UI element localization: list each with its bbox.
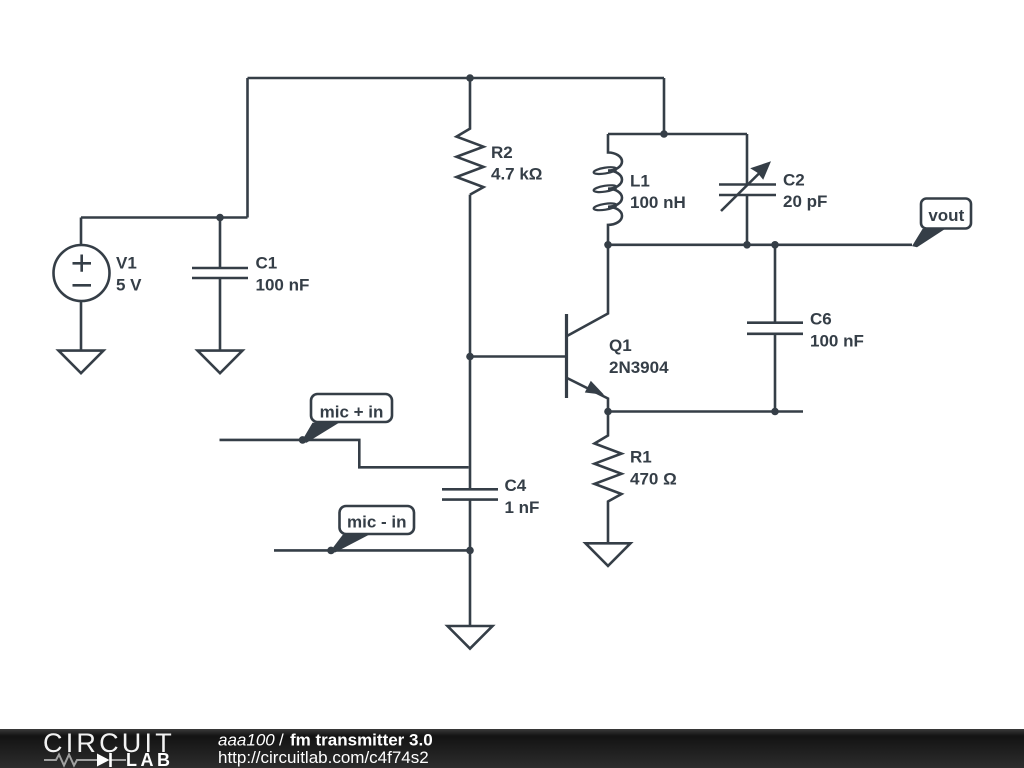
svg-text:mic + in: mic + in	[320, 402, 384, 421]
wire mic+ to C4 top	[220, 440, 469, 467]
wire mic- row	[274, 549, 470, 552]
voltage source V1	[54, 218, 110, 351]
transistor Q1	[567, 245, 609, 412]
wire base (R2 to Q1)	[470, 355, 565, 358]
svg-text:C2: C2	[783, 171, 805, 190]
svg-text:20 pF: 20 pF	[783, 192, 827, 211]
svg-text:100 nF: 100 nF	[810, 332, 864, 351]
wire R2 bottom down to C4	[469, 195, 472, 490]
variable capacitor C2	[719, 134, 776, 245]
svg-text:vout: vout	[928, 206, 964, 225]
node dot mic+ tap	[299, 436, 307, 444]
svg-text:/: /	[279, 731, 284, 750]
node dot C6 bottom	[771, 408, 779, 416]
svg-text:100 nF: 100 nF	[256, 276, 310, 295]
resistor R1	[595, 412, 622, 544]
ground (V1)	[59, 351, 104, 374]
flag mic - in	[340, 506, 415, 534]
svg-text:2N3904: 2N3904	[609, 358, 669, 377]
flag vout	[921, 199, 971, 229]
logo resistor-diode glyph	[44, 755, 126, 766]
svg-text:Q1: Q1	[609, 336, 632, 355]
svg-text:mic - in: mic - in	[347, 512, 407, 531]
flag mic + in	[311, 394, 392, 422]
resistor R2	[457, 78, 484, 195]
svg-text:4.7 kΩ: 4.7 kΩ	[491, 165, 542, 184]
svg-text:C4: C4	[505, 476, 527, 495]
wire emitter row	[608, 410, 803, 413]
svg-text:fm transmitter 3.0: fm transmitter 3.0	[290, 731, 433, 750]
wire C4 bottom to ground	[469, 550, 472, 626]
flag tail mic + in	[302, 423, 340, 443]
svg-text:C6: C6	[810, 310, 832, 329]
ground (C1)	[198, 351, 243, 374]
wire tank top (L1 to C2)	[608, 133, 747, 136]
node dot R2 top rail	[466, 74, 474, 82]
svg-text:http://circuitlab.com/c4f74s2: http://circuitlab.com/c4f74s2	[218, 748, 429, 767]
wire V1 top to riser	[81, 216, 248, 219]
wire riser to top rail	[246, 78, 249, 218]
capacitor C4	[442, 489, 498, 550]
arrow head of C2	[750, 161, 771, 180]
ground (R1)	[586, 543, 631, 566]
node dot base junction	[466, 353, 474, 361]
svg-text:100 nH: 100 nH	[630, 193, 686, 212]
wire rail drop to tank	[663, 78, 666, 134]
node dot L1 bottom / collector	[604, 241, 612, 249]
flag tail mic - in	[330, 535, 369, 553]
svg-text:V1: V1	[116, 254, 137, 273]
logo diode	[97, 754, 110, 767]
wire tank bottom / vout row	[608, 244, 912, 247]
node dot C2 bottom	[743, 241, 751, 249]
wire top rail	[248, 77, 665, 80]
svg-text:470 Ω: 470 Ω	[630, 470, 677, 489]
svg-text:aaa100: aaa100	[218, 731, 275, 750]
ground (C4)	[448, 626, 493, 649]
svg-text:LAB: LAB	[126, 750, 174, 768]
node dot C1 top	[216, 214, 224, 222]
svg-text:R1: R1	[630, 448, 652, 467]
node dot C6 top	[771, 241, 779, 249]
capacitor C1	[192, 218, 248, 351]
inductor L1	[608, 134, 622, 245]
svg-text:L1: L1	[630, 172, 650, 191]
svg-text:C1: C1	[256, 254, 278, 273]
capacitor C6	[747, 245, 803, 412]
node dot tank top	[660, 130, 668, 138]
emitter arrow of Q1	[585, 381, 604, 395]
node dot C4 bottom	[466, 547, 474, 555]
node dot emitter / R1	[604, 408, 612, 416]
svg-text:1 nF: 1 nF	[505, 498, 540, 517]
flag tail vout	[912, 229, 945, 247]
svg-text:5 V: 5 V	[116, 276, 142, 295]
node dot mic- tap	[327, 547, 335, 555]
svg-text:R2: R2	[491, 143, 513, 162]
